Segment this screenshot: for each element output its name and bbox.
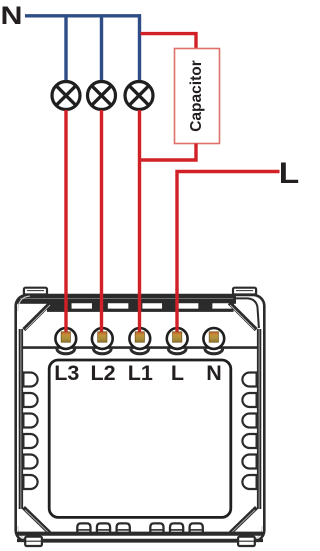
switch module: bottom rail band [17,532,263,536]
switch module: top-left mounting tab [24,288,47,295]
switch module: corner highlight arcs [18,296,262,540]
wire: blue drop to lamp 3 [138,14,141,81]
switch module: bottom snap tab ridges [78,529,202,531]
svg-text:L3: L3 [54,361,79,385]
switch module: bottom snap tabs [77,523,203,533]
wire: capacitor top lead (red) [141,34,197,49]
terminal screw L [173,332,182,342]
terminal hole shadow L [168,349,186,354]
switch module: bottom-right chamfer [231,508,257,533]
terminal screw N [209,332,218,342]
wire: blue drop to lamp 1 [64,16,67,82]
switch module: bottom-left chamfer [24,508,50,533]
lamp 3 [125,82,153,110]
lamp 2 [88,82,116,110]
switch module: top rail band [17,295,236,307]
switch module: top-right mounting tab [233,288,256,295]
wire: capacitor bottom lead (red) [140,144,197,161]
switch module: bottom-left mounting tab [25,537,42,546]
switch module: front plate [49,360,231,517]
wire: line feed into terminal L (red) [175,289,178,335]
svg-text:L: L [171,361,184,385]
wire: lamp 2 to terminal L2 (red) [100,110,103,335]
switch module: bottom-right mounting tab [238,537,255,546]
wire: lamp 1 to terminal L3 (red) [64,110,67,335]
lamp 1 [52,82,80,110]
switch module: right clip bumps [242,373,256,490]
svg-text:L: L [279,157,300,190]
terminal hole shadow L1 [131,349,149,354]
svg-text:N: N [206,361,222,385]
terminal screw L1 [135,332,144,342]
switch module: top-left chamfer [24,303,51,330]
switch module: terminal row line [22,346,258,349]
wire: line feed L (red) [177,172,280,291]
terminal L2 (circle) [92,328,113,349]
svg-text:L2: L2 [90,361,115,385]
terminal hole shadow N [205,349,223,354]
terminal L (circle) [167,328,188,349]
terminal hole shadow L2 [93,349,111,354]
svg-text:L1: L1 [128,361,153,385]
terminal N (circle) [203,328,224,349]
terminal hole shadow L3 [57,349,75,354]
wire: lamp 3 to terminal L1 (red) [138,110,141,335]
switch module: top-right chamfer [229,303,256,330]
switch module: outer case [16,295,265,541]
svg-text:N: N [1,2,23,30]
terminal screw L2 [98,332,107,342]
switch module: inner right wall [257,329,261,509]
terminal L1 (circle) [129,328,150,349]
switch module: top rail notches [71,303,233,310]
wire: neutral bus (blue) [25,14,141,17]
terminal screw L3 [61,332,70,342]
terminal L3 (circle) [55,328,76,349]
svg-text:Capacitor: Capacitor [188,60,205,132]
switch module: top-right inner contour [236,298,259,328]
capacitor C1 [175,49,220,144]
wire: blue drop to lamp 2 [100,16,103,82]
switch module: inner left wall [19,329,23,509]
switch module: left clip bumps [23,373,37,490]
